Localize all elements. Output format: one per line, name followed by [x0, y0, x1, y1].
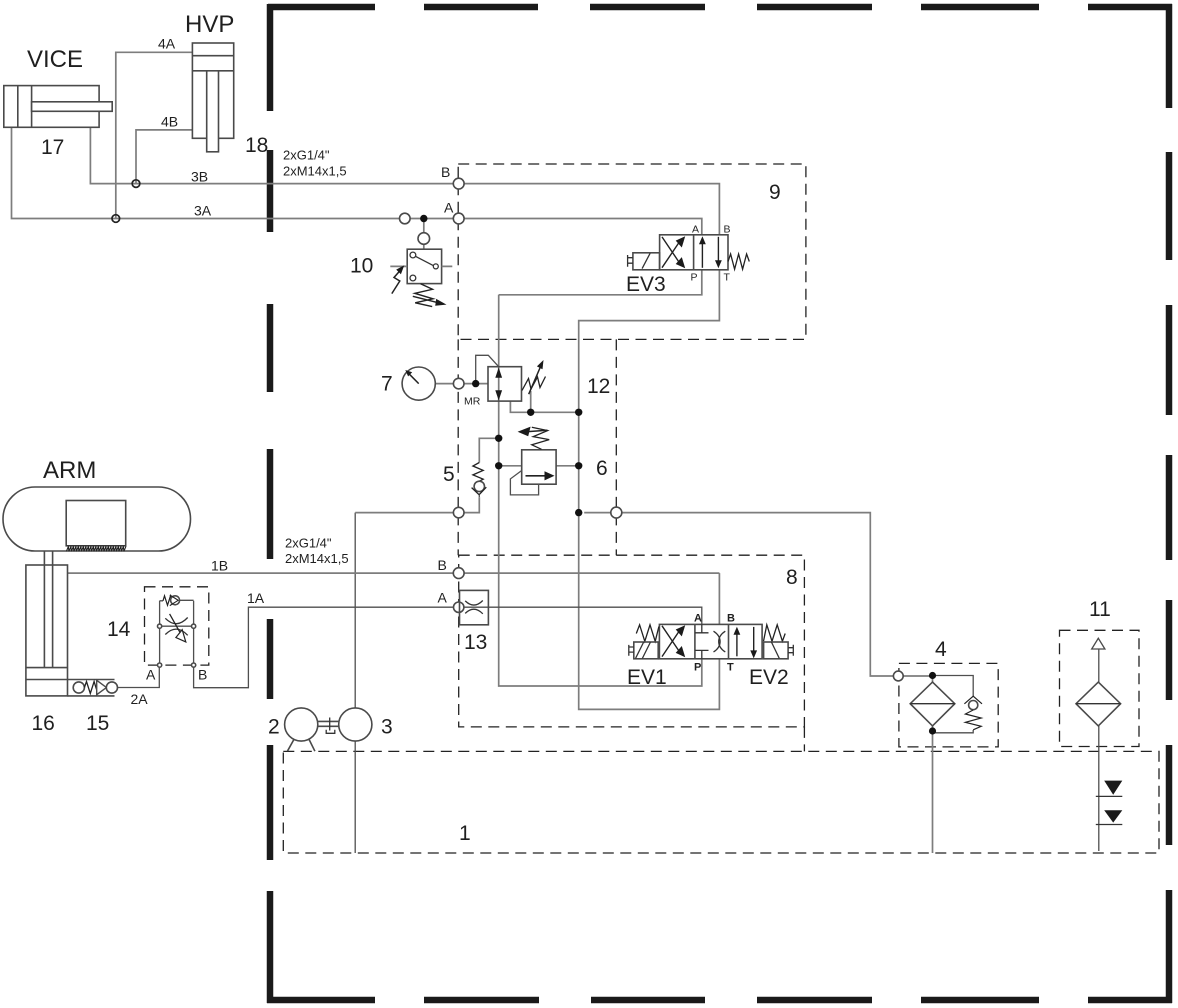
- node filter inlet: [929, 672, 936, 679]
- oil level indicators: [1096, 781, 1123, 825]
- svg-text:7: 7: [381, 373, 393, 396]
- svg-text:A: A: [146, 667, 156, 683]
- svg-text:1: 1: [459, 822, 471, 845]
- svg-text:8: 8: [786, 566, 798, 589]
- node EV3-T / drain: [575, 409, 582, 416]
- svg-text:11: 11: [1089, 598, 1111, 621]
- air breather 11: [1076, 638, 1121, 726]
- node relief outlet: [575, 462, 582, 469]
- svg-text:EV3: EV3: [626, 273, 666, 296]
- wire 1B line: [68, 572, 454, 574]
- wire port A9 to EV3 A: [464, 219, 702, 235]
- svg-text:3: 3: [381, 716, 393, 739]
- svg-text:B: B: [198, 667, 207, 683]
- svg-text:B: B: [724, 224, 731, 236]
- pressure reducing valve 12: [488, 360, 546, 401]
- cylinder 17 (VICE): [4, 86, 112, 128]
- wire filter inlet: [903, 675, 932, 677]
- bypass check valve (filter): [964, 696, 982, 730]
- node filter outlet: [929, 727, 936, 734]
- svg-text:18: 18: [245, 134, 268, 157]
- wire EV3 P to main pressure line: [499, 270, 702, 295]
- dashed box 1 (oil tank): [283, 751, 1159, 853]
- svg-text:2A: 2A: [131, 691, 149, 707]
- wire pump delivery horizontal: [355, 512, 453, 514]
- dashed box 9 (valve group EV3): [458, 164, 806, 339]
- svg-text:13: 13: [464, 631, 487, 654]
- svg-text:2xG1/4": 2xG1/4": [283, 148, 330, 163]
- svg-text:A: A: [438, 590, 448, 606]
- svg-text:B: B: [438, 557, 447, 573]
- svg-text:ARM: ARM: [43, 457, 96, 484]
- node drain junction: [527, 409, 534, 416]
- node pilot/MR: [472, 380, 479, 387]
- svg-text:6: 6: [596, 457, 608, 480]
- flow control valve 14 internals: [158, 595, 196, 667]
- svg-text:P: P: [694, 662, 701, 674]
- wire line 4A: [116, 52, 193, 218]
- dashed box 11 (air breather): [1060, 630, 1140, 746]
- dashed box 8 (valve group EV1/EV2): [459, 555, 805, 727]
- svg-text:P: P: [691, 272, 698, 284]
- svg-text:3A: 3A: [194, 203, 212, 219]
- svg-text:1A: 1A: [247, 590, 265, 606]
- wire EV1/2 B port riser: [718, 573, 720, 624]
- coupling on return line: [611, 507, 622, 518]
- wire EV3 T return: [579, 270, 720, 413]
- wire 2A line: [118, 667, 160, 687]
- svg-text:B: B: [727, 613, 735, 625]
- solenoid valve EV1/EV2: [629, 624, 794, 658]
- orifice 13: [460, 590, 489, 624]
- wire box8 B to valve top: [464, 572, 719, 574]
- wire line 3A: [12, 127, 454, 218]
- svg-text:EV2: EV2: [749, 666, 789, 689]
- dashed box 14 (flow control valve): [145, 587, 209, 665]
- svg-text:4: 4: [935, 638, 947, 661]
- solenoid valve EV3: [628, 235, 750, 270]
- relief valve 6: [510, 427, 556, 495]
- wire check valve 5 branch: [464, 438, 499, 512]
- wire filter bypass: [933, 676, 974, 733]
- pressure switch 10: [390, 233, 452, 307]
- svg-text:12: 12: [587, 375, 610, 398]
- wire relief valve 6 connections: [499, 465, 579, 467]
- svg-text:T: T: [724, 272, 731, 284]
- wire port B9 to EV3 B: [464, 184, 719, 235]
- svg-text:A: A: [444, 200, 454, 216]
- wire line 3B: [90, 127, 453, 183]
- port A of box 9: [453, 213, 464, 224]
- svg-text:2xG1/4": 2xG1/4": [285, 536, 332, 551]
- svg-text:16: 16: [32, 712, 55, 735]
- wire reducing valve pilot: [476, 355, 499, 383]
- port A of box 8: [454, 602, 464, 612]
- wire breather line: [1098, 649, 1100, 851]
- pressure gauge 7: [402, 367, 435, 400]
- wire tank return line (vertical): [579, 412, 720, 709]
- svg-text:A: A: [692, 224, 699, 236]
- cylinder 18 (HVP): [192, 43, 233, 152]
- svg-text:3B: 3B: [191, 169, 208, 185]
- svg-text:MR: MR: [464, 396, 481, 408]
- svg-text:9: 9: [769, 181, 781, 204]
- svg-text:4A: 4A: [158, 36, 176, 52]
- coupling on pump line: [453, 507, 464, 518]
- pump 3: [339, 708, 372, 741]
- wire MR gauge line: [435, 383, 488, 385]
- wire return to filter: [584, 513, 893, 676]
- svg-text:VICE: VICE: [27, 46, 83, 73]
- svg-text:14: 14: [107, 618, 131, 641]
- node check5 / main line: [495, 435, 502, 442]
- svg-text:B: B: [441, 164, 450, 180]
- svg-text:15: 15: [86, 712, 109, 735]
- svg-text:2: 2: [268, 716, 280, 739]
- wire pressure-switch branch: [423, 219, 425, 250]
- wire filter element path: [932, 676, 934, 854]
- node relief inlet: [495, 462, 502, 469]
- cylinder 16 (ARM cylinder): [26, 551, 68, 696]
- svg-text:2xM14x1,5: 2xM14x1,5: [285, 551, 349, 566]
- port of filter group: [893, 671, 903, 681]
- machine boundary frame (thick dashed border): [267, 4, 1172, 1003]
- svg-text:10: 10: [350, 255, 373, 278]
- wire box8 A to valve A: [464, 607, 702, 624]
- svg-text:A: A: [694, 613, 702, 625]
- wire pump riser: [354, 513, 356, 853]
- wire reducing valve drain: [510, 391, 578, 412]
- node tank line / pump line: [575, 509, 582, 516]
- wire 1A line: [194, 607, 454, 688]
- wire line 4B: [136, 130, 192, 184]
- coupling motor-pump: [318, 718, 339, 734]
- quick coupling 15: [68, 680, 118, 696]
- filter 4: [910, 682, 955, 726]
- check valve 5: [472, 463, 487, 498]
- svg-text:17: 17: [41, 136, 64, 159]
- port B of box 8: [453, 568, 464, 579]
- electric motor 2: [285, 708, 318, 751]
- wire main pressure line (vertical): [499, 295, 702, 686]
- node on 3A (switch branch): [420, 215, 427, 222]
- junction 4A/3A: [112, 215, 120, 223]
- ARM actuator graphic: [3, 487, 191, 551]
- svg-text:T: T: [727, 662, 734, 674]
- coupling MR: [453, 378, 464, 389]
- svg-text:5: 5: [443, 463, 455, 486]
- dashed box 4 (return filter): [899, 663, 998, 747]
- svg-text:1B: 1B: [211, 558, 228, 574]
- port B of box 9: [453, 178, 464, 189]
- svg-text:EV1: EV1: [627, 666, 667, 689]
- svg-text:HVP: HVP: [185, 11, 234, 38]
- dashed box 12 (pressure reducing group): [458, 339, 616, 555]
- svg-text:2xM14x1,5: 2xM14x1,5: [283, 164, 347, 179]
- junction 4B/3B: [132, 180, 140, 188]
- svg-text:4B: 4B: [161, 114, 178, 130]
- coupling on line 3A: [400, 213, 411, 224]
